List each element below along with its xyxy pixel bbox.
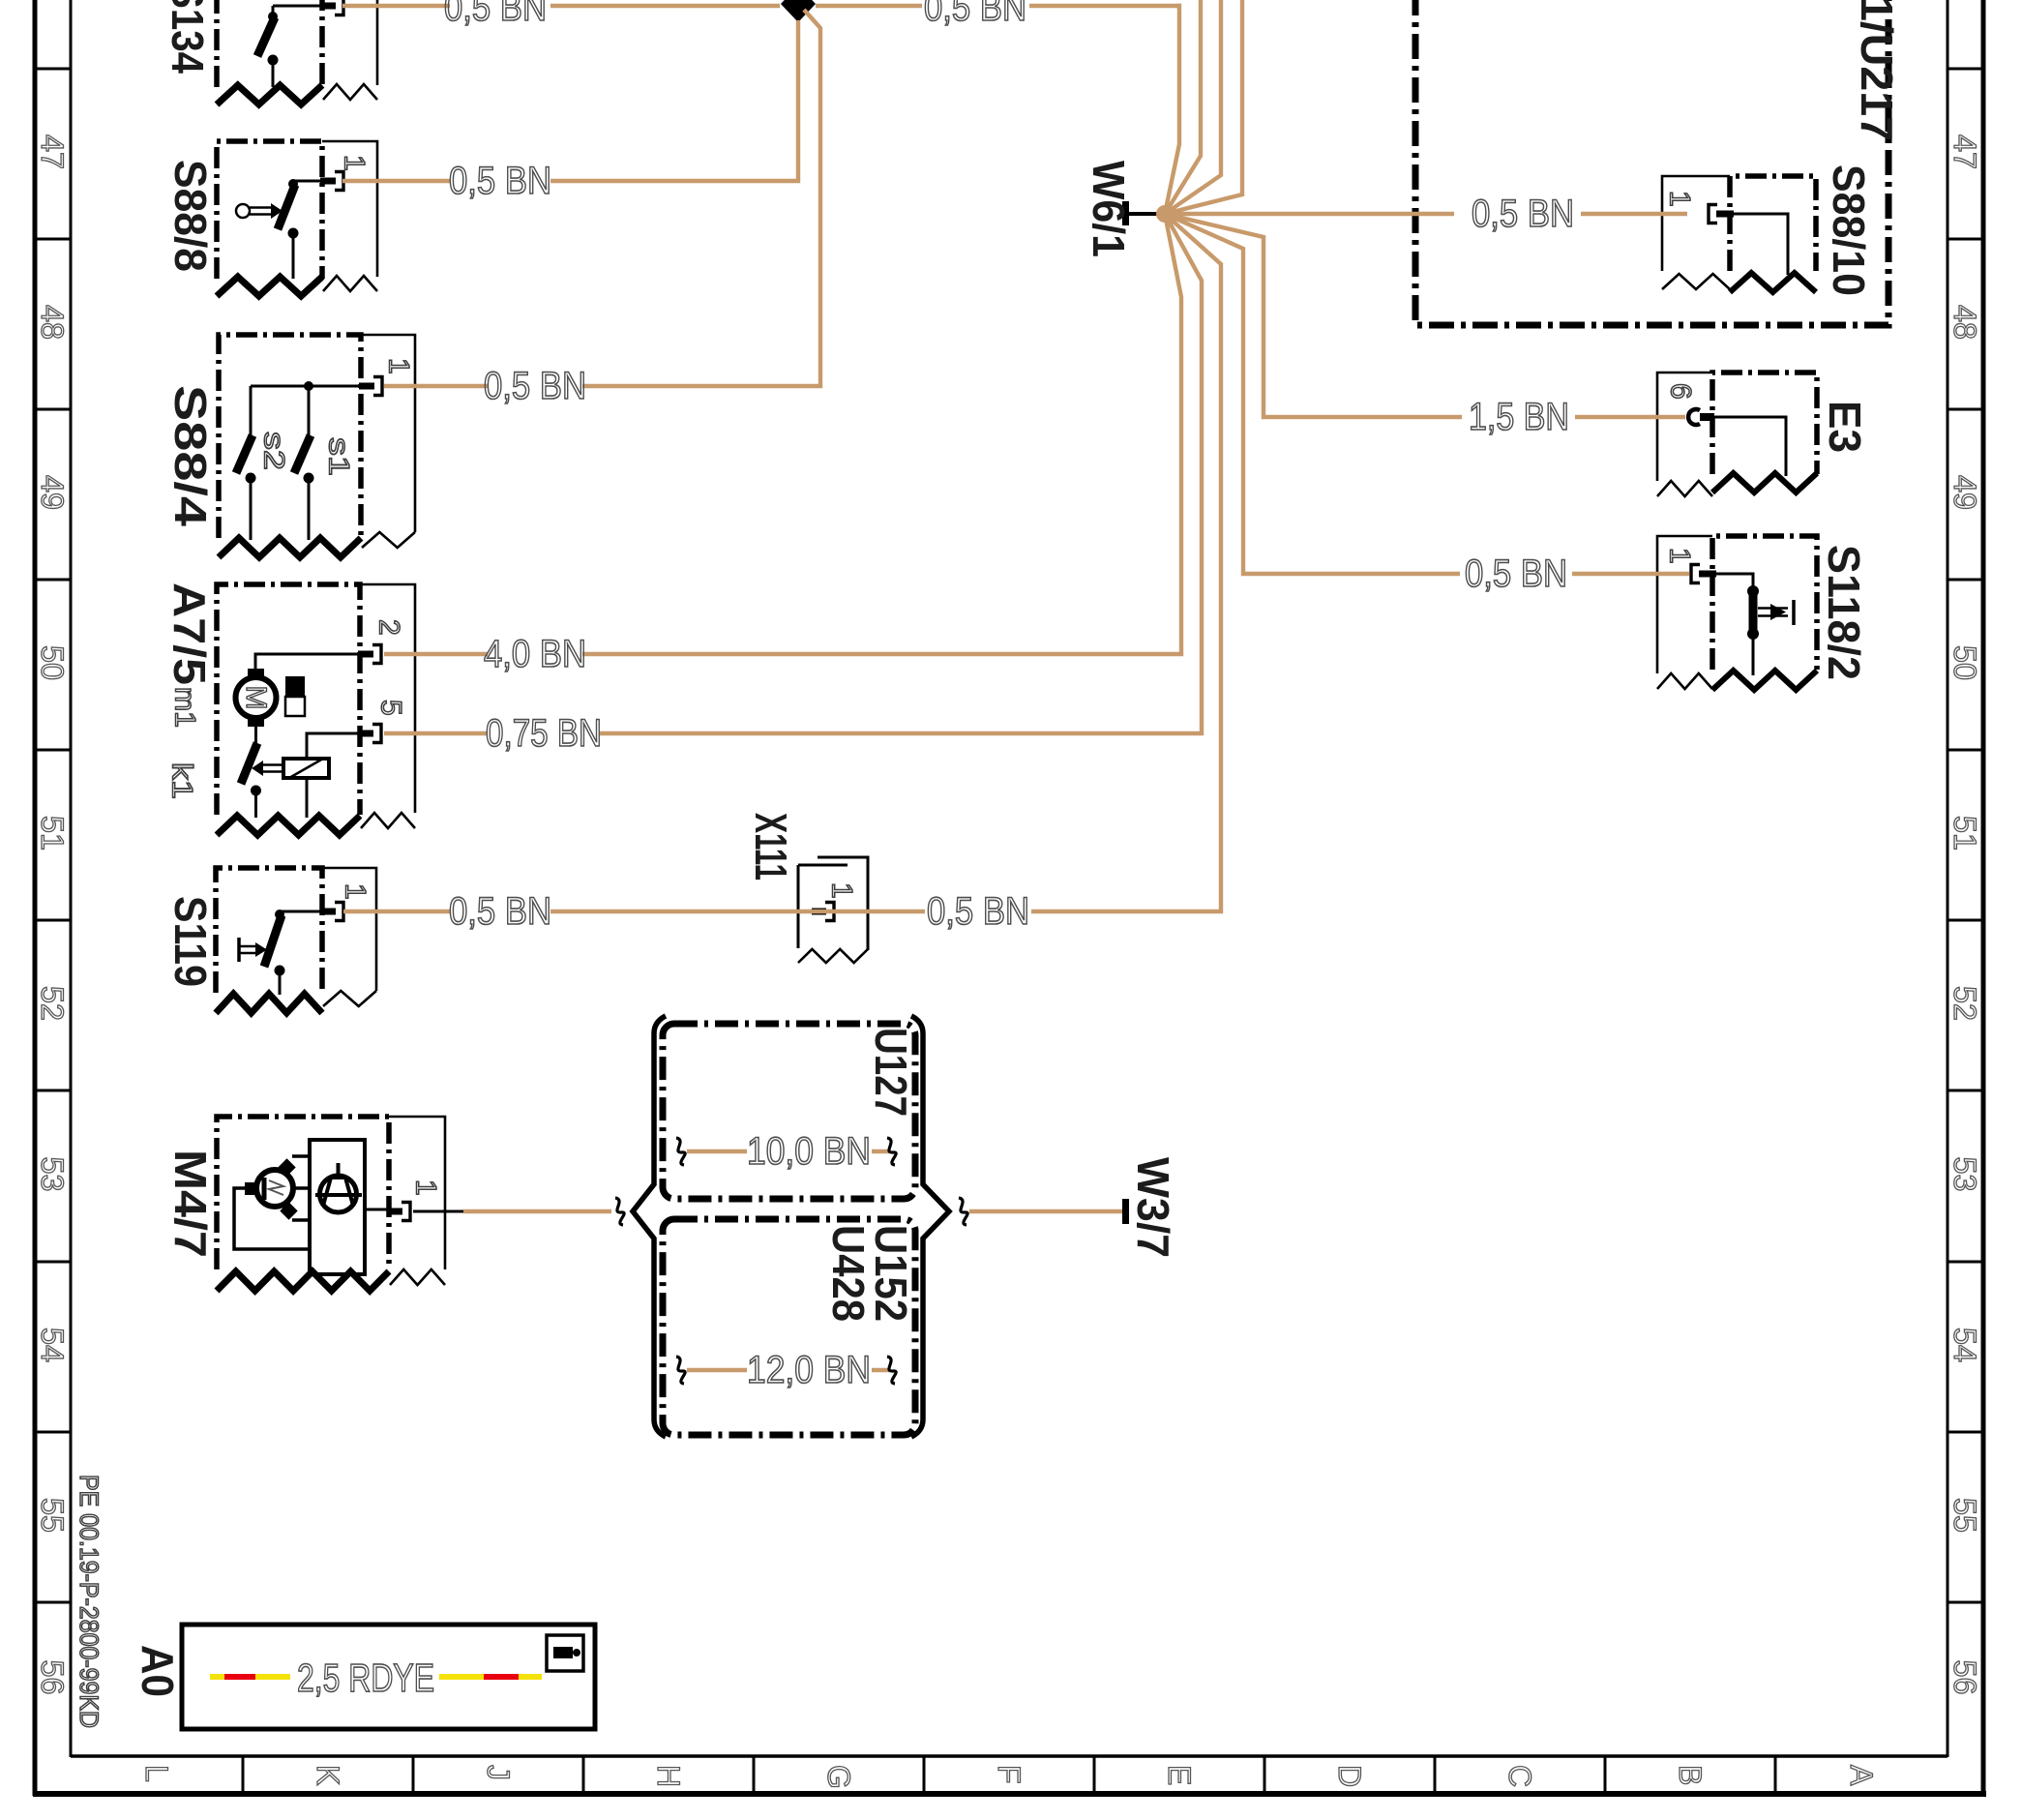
svg-text:m1: m1: [169, 687, 201, 728]
svg-text:1: 1: [383, 358, 415, 374]
svg-text:U428: U428: [823, 1225, 874, 1322]
svg-text:49: 49: [1948, 475, 1982, 510]
wire W6/1 up offpage 2: [1165, 0, 1221, 214]
switch S88/4: [219, 335, 415, 557]
svg-text:56: 56: [35, 1660, 70, 1695]
svg-text:53: 53: [35, 1157, 70, 1192]
svg-text:53: 53: [1948, 1157, 1982, 1192]
svg-text:49: 49: [35, 475, 70, 510]
heated rear window E3: [1657, 373, 1817, 496]
svg-text:2: 2: [373, 619, 405, 636]
wire M4/7 pin 1 to harness: [413, 1198, 624, 1225]
svg-text:51: 51: [35, 816, 70, 850]
svg-text:0,5 BN: 0,5 BN: [449, 890, 551, 933]
svg-text:W6/1: W6/1: [1084, 161, 1134, 257]
svg-text:50: 50: [35, 645, 70, 680]
svg-text:PE 00.19-P-2800-99KD: PE 00.19-P-2800-99KD: [74, 1475, 104, 1728]
svg-text:E: E: [1162, 1765, 1197, 1785]
wire 0,75 BN W6/1 to A7/5 pin 5: [600, 214, 1202, 733]
switch S134: [217, 0, 377, 104]
svg-text:50: 50: [1948, 645, 1982, 680]
svg-text:48: 48: [35, 305, 70, 340]
svg-text:G: G: [821, 1765, 856, 1789]
coupler box U152 U428: [663, 1219, 915, 1435]
svg-text:1: 1: [1664, 548, 1696, 564]
wire 0,5 BN splice to corner: [816, 4, 922, 8]
svg-text:S88/8: S88/8: [165, 160, 216, 272]
ground point W6/1: [1125, 201, 1174, 225]
svg-text:s2: s2: [258, 432, 290, 470]
svg-text:0,5 BN: 0,5 BN: [927, 890, 1029, 933]
svg-text:M: M: [240, 686, 272, 710]
switch S88/8: [217, 141, 377, 296]
wire 0,5 BN W6/1 to S118/2: [1165, 214, 1460, 574]
svg-text:A0: A0: [133, 1645, 183, 1697]
svg-text:47: 47: [35, 134, 70, 169]
switch S118/2: [1657, 536, 1817, 690]
ground point W3/7: [1122, 1199, 1129, 1224]
svg-text:S119: S119: [165, 896, 216, 987]
svg-text:A7/5: A7/5: [164, 582, 215, 685]
svg-text:4,0 BN: 4,0 BN: [484, 633, 586, 675]
wire 4,0 BN W6/1 to A7/5 pin 2: [582, 214, 1181, 654]
svg-text:48: 48: [1948, 305, 1982, 340]
svg-text:S88/4: S88/4: [165, 385, 216, 526]
svg-text:1: 1: [410, 1179, 442, 1196]
svg-text:k1: k1: [166, 762, 198, 799]
svg-text:S118/2: S118/2: [1819, 545, 1869, 680]
wire 10,0 BN inside U127: [676, 1138, 896, 1165]
svg-text:10,0 BN: 10,0 BN: [747, 1130, 871, 1173]
svg-text:1: 1: [339, 155, 371, 171]
coupler box U127: [663, 1024, 915, 1199]
svg-text:12,0 BN: 12,0 BN: [747, 1349, 871, 1391]
svg-text:M4/7: M4/7: [165, 1149, 216, 1258]
svg-text:0,5 BN: 0,5 BN: [1472, 193, 1574, 235]
wire W6/1 up offpage 1: [1165, 0, 1201, 214]
wire 1,5 BN W6/1 to E3: [1165, 214, 1462, 417]
svg-text:52: 52: [1948, 986, 1982, 1021]
svg-text:S134: S134: [163, 0, 213, 74]
svg-text:1: 1: [340, 883, 372, 900]
wire W6/1 up offpage 3: [1165, 0, 1242, 214]
hydraulic unit A7/5: [217, 584, 415, 835]
svg-text:D: D: [1332, 1765, 1367, 1787]
svg-text:F: F: [992, 1765, 1026, 1784]
svg-text:C: C: [1502, 1765, 1537, 1787]
svg-text:1,5 BN: 1,5 BN: [1469, 396, 1569, 438]
control module box 1/U217: [1415, 0, 1888, 325]
blower motor M4/7: [217, 1117, 445, 1291]
svg-text:2,5 RDYE: 2,5 RDYE: [297, 1656, 434, 1700]
connector X111: [798, 857, 868, 963]
svg-text:55: 55: [1948, 1498, 1982, 1533]
splice diamond: [781, 0, 816, 22]
wire 0,5 BN W6/1 to S88/10: [1165, 212, 1454, 216]
wire harness to ground W3/7: [959, 1198, 1122, 1225]
svg-text:K: K: [311, 1765, 345, 1785]
svg-text:5: 5: [375, 700, 407, 716]
svg-text:E3: E3: [1820, 401, 1870, 453]
svg-text:0,5 BN: 0,5 BN: [1465, 552, 1567, 595]
harness brace right: [911, 1016, 949, 1437]
harness brace left: [633, 1016, 666, 1437]
svg-text:55: 55: [35, 1498, 70, 1533]
svg-text:56: 56: [1948, 1660, 1982, 1695]
svg-text:52: 52: [35, 986, 70, 1021]
svg-text:1: 1: [826, 882, 858, 899]
switch S119: [216, 868, 376, 1013]
wire 0,5 BN from S134 to splice: [342, 4, 450, 8]
svg-text:54: 54: [1948, 1328, 1982, 1362]
svg-text:J: J: [481, 1765, 516, 1780]
svg-text:X111: X111: [746, 813, 796, 880]
wire 12,0 BN inside U152/U428: [676, 1357, 896, 1384]
svg-text:0,5 BN: 0,5 BN: [444, 0, 547, 29]
wire S88/8 to splice: [342, 179, 450, 183]
wire 0,5 BN W6/1 to X111 and S119: [1031, 214, 1221, 911]
svg-text:0,5 BN: 0,5 BN: [484, 365, 586, 407]
svg-text:s1: s1: [323, 437, 355, 476]
svg-text:H: H: [651, 1765, 686, 1787]
svg-text:0,75 BN: 0,75 BN: [486, 712, 602, 755]
svg-text:1: 1: [1664, 191, 1696, 207]
svg-text:0,5 BN: 0,5 BN: [924, 0, 1026, 29]
svg-text:A: A: [1844, 1765, 1879, 1786]
svg-text:54: 54: [35, 1328, 70, 1362]
svg-text:51: 51: [1948, 816, 1982, 850]
legend box A0: [182, 1625, 595, 1729]
switch S88/10: [1662, 176, 1816, 292]
svg-text:0,5 BN: 0,5 BN: [449, 160, 551, 202]
svg-text:S88/10: S88/10: [1824, 164, 1874, 296]
svg-text:U127: U127: [866, 1028, 916, 1117]
svg-text:B: B: [1673, 1765, 1708, 1785]
svg-text:L: L: [139, 1765, 174, 1782]
svg-text:47: 47: [1948, 134, 1982, 169]
svg-text:1/U217: 1/U217: [1852, 0, 1902, 141]
wire W6/1 up to S134 corner: [1165, 6, 1179, 214]
svg-text:W3/7: W3/7: [1128, 1157, 1178, 1258]
wire S88/4 to splice: [384, 384, 488, 388]
svg-text:6: 6: [1665, 383, 1697, 400]
